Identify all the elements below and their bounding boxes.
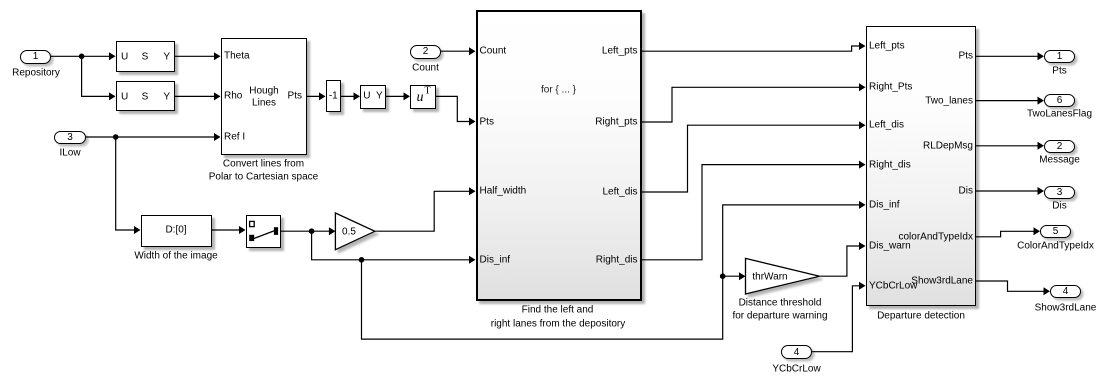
subsystem: Departure detection <box>866 26 977 306</box>
arrowhead into Departure Right_dis <box>859 161 866 169</box>
arrowhead into thrWarn <box>739 272 746 280</box>
manual switch block <box>246 215 282 248</box>
wire Left_pts to Departure <box>642 46 865 51</box>
arrowhead into outport 6 <box>1038 97 1045 105</box>
arrowhead into Departure Left_dis <box>859 121 866 129</box>
outport 2 Message <box>1044 140 1075 154</box>
arrowhead into U Y <box>354 92 361 100</box>
outport 5 ColorAndTypeIdx <box>1040 225 1071 238</box>
arrowhead into Ref I <box>214 133 221 141</box>
arrowhead into Departure YCbCrLow <box>859 282 866 290</box>
arrowhead into outport 1 <box>1038 52 1045 60</box>
selector U S Y (top) <box>116 41 176 72</box>
wire USY1 to Theta <box>175 55 220 57</box>
arrowhead into Half_width <box>469 187 476 195</box>
wire port1 to USY1 <box>51 55 115 57</box>
wire Pts out <box>976 55 1039 57</box>
svg-text:0.5: 0.5 <box>342 227 356 238</box>
junction at ILow branch <box>113 134 119 140</box>
wire USY2 to Rho <box>175 95 220 97</box>
junction at switch output <box>309 228 315 234</box>
wire Right_pts to Departure <box>642 87 865 122</box>
wire uT to big Pts <box>436 96 475 121</box>
inport 3 ILow <box>54 131 86 144</box>
junction at Dis_inf wire <box>359 257 365 263</box>
arrowhead into Dis_inf <box>469 256 476 264</box>
gain thrWarn triangle <box>746 258 820 294</box>
wire port2 to Count <box>441 50 475 52</box>
arrowhead into outport 3 <box>1038 187 1045 195</box>
arrowhead into USY2 <box>109 92 116 100</box>
wire branch to USY2 <box>82 56 115 96</box>
selector U S Y (bottom) <box>116 81 176 111</box>
arrowhead into Rho <box>214 92 221 100</box>
wire port4 to YCbCrLow <box>812 286 865 352</box>
svg-text:thrWarn: thrWarn <box>752 272 787 283</box>
wire Show3rdLane out <box>976 281 1045 291</box>
inport 2 Count <box>410 45 441 59</box>
constant D:[0] block <box>141 215 212 247</box>
junction at thrWarn branch <box>720 273 726 279</box>
selector U Y block <box>360 85 386 109</box>
wire Right_dis to Departure <box>642 165 865 260</box>
wire branch to thrWarn <box>723 275 745 277</box>
arrowhead into Count <box>469 47 476 55</box>
gain 0.5 triangle <box>335 213 375 250</box>
arrowhead into gain 0.5 <box>329 227 336 235</box>
wire branch to Dis_inf of subsystem <box>312 231 475 260</box>
arrowhead into Dis_warn <box>859 242 866 250</box>
inport 1 Repository <box>20 50 51 64</box>
wire -1 to U Y <box>341 95 359 97</box>
arrowhead into USY1 <box>109 52 116 60</box>
gain labels <box>739 297 822 308</box>
wire U Y to uT <box>386 95 409 97</box>
wire long branch to Departure Dis_inf <box>362 205 865 339</box>
arrowhead into uT <box>404 92 411 100</box>
wire branch to D:[0] <box>116 137 140 230</box>
arrowhead into Departure Right_Pts <box>859 83 866 91</box>
arrowhead into Departure Left_pts <box>859 42 866 50</box>
wire switch to gain 0.5 <box>281 230 335 232</box>
arrowhead into D:[0] <box>134 226 141 234</box>
outport 6 TwoLanesFlag <box>1044 94 1075 108</box>
wire Two_lanes out <box>976 100 1039 102</box>
wire D:[0] to switch <box>212 229 245 231</box>
outport 3 Dis <box>1044 186 1075 199</box>
inport 4 YCbCrLow <box>781 345 812 360</box>
subsystem: Find the left and right lanes from the depository <box>476 10 642 301</box>
gain -1 block <box>326 80 342 112</box>
outport 4 Show3rdLane <box>1050 285 1081 298</box>
wire Dis out <box>976 190 1039 192</box>
wire port3 to Ref I <box>86 136 220 138</box>
Hough Lines block <box>221 38 308 155</box>
transpose uT block <box>410 85 436 110</box>
arrowhead into outport 2 <box>1038 142 1045 150</box>
wire Pts to -1 <box>307 95 325 97</box>
arrowhead into -1 <box>319 92 326 100</box>
arrowhead into outport 5 <box>1034 227 1041 235</box>
wire gain 0.5 to Half_width <box>375 191 475 231</box>
arrowhead into Theta <box>214 52 221 60</box>
wire colorAndTypeIdx out <box>976 231 1035 237</box>
arrowhead into outport 4 <box>1044 287 1051 295</box>
wire Left_dis to Departure <box>642 125 865 192</box>
outport 1 Pts <box>1044 50 1075 64</box>
arrowhead into Pts <box>469 118 476 126</box>
wire thrWarn to Dis_warn <box>820 246 865 276</box>
arrowhead into Departure Dis_inf <box>859 201 866 209</box>
switch icon <box>249 221 278 241</box>
wire RLDepMsg out <box>976 145 1039 147</box>
junction at Repository branch <box>79 54 85 60</box>
arrowhead into switch <box>239 226 246 234</box>
